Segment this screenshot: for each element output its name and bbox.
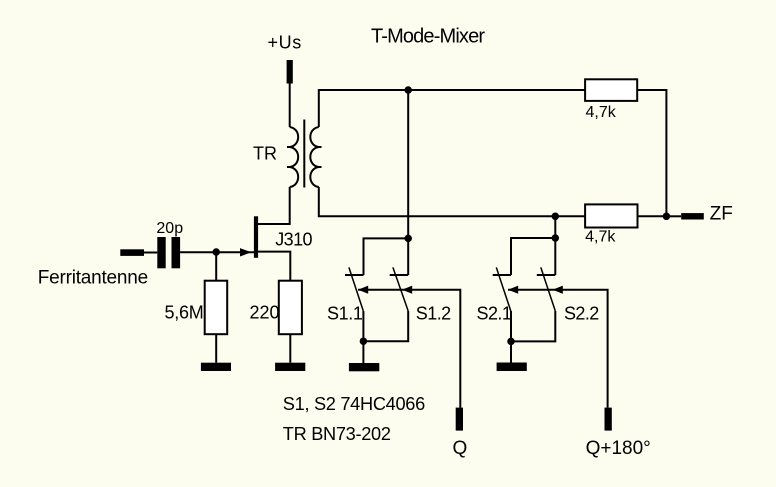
wire S2.1 bottom (510, 311, 512, 341)
wire S2 control line (508, 290, 608, 408)
wire S1.2 bottom (363, 311, 408, 341)
svg-text:S1.1: S1.1 (327, 303, 363, 323)
wire S1 ground stem (362, 341, 364, 363)
wire input to capacitor (144, 252, 157, 254)
arrow S1.2 control (402, 286, 412, 294)
svg-text:220: 220 (250, 303, 280, 323)
node S1 bottom junction (360, 337, 368, 345)
node input junction (212, 248, 220, 256)
svg-text:TR: TR (253, 144, 277, 164)
terminal +Us (287, 60, 293, 84)
resistor 5,6M (215, 252, 217, 281)
transistor Q1 J310 channel bar (254, 216, 258, 257)
svg-text:T-Mode-Mixer: T-Mode-Mixer (371, 26, 485, 48)
arrow S1.1 control (358, 286, 368, 294)
wire 5,6M to ground (215, 334, 217, 363)
ground 5,6M (201, 363, 231, 371)
switch S2.2 contact (537, 274, 556, 276)
svg-text:J310: J310 (275, 230, 312, 250)
node ZF bus S2 junction (552, 213, 560, 221)
arrow S2.2 control (553, 286, 563, 294)
wire S1.1 feed L (364, 238, 409, 275)
ground 220 (275, 363, 305, 371)
ground S2 (497, 363, 527, 372)
switch S1.1 contact (345, 274, 364, 276)
switch S1.2 lever (393, 267, 408, 311)
node ZF junction (663, 213, 671, 221)
wire S1.1 bottom (362, 311, 364, 341)
capacitor 20p (157, 237, 165, 268)
arrow S2.1 control (508, 286, 518, 294)
transformer TR primary winding (290, 127, 298, 187)
resistor R2 4,7k bottom (585, 204, 637, 227)
resistor 220 (279, 281, 302, 335)
wire capacitor to gate (180, 251, 254, 253)
wire R2 to ZF node (638, 215, 667, 217)
svg-text:4,7k: 4,7k (585, 229, 616, 246)
svg-text:Ferritantenne: Ferritantenne (38, 267, 148, 288)
switch S2.2 lever (541, 267, 556, 311)
node S2 bottom junction (507, 338, 515, 346)
wire +Us to TR primary (289, 84, 291, 128)
transistor Q1 J310 gate arrow (240, 248, 251, 256)
wire TR secondary bottom to ZF bus (319, 187, 585, 216)
node S2 feed junction (552, 234, 560, 242)
svg-text:Q+180°: Q+180° (586, 438, 651, 459)
terminal Ferritantenne input (120, 249, 144, 256)
svg-text:+Us: +Us (268, 33, 302, 53)
terminal ZF (681, 213, 704, 219)
wire S2.2 bottom (511, 311, 555, 341)
wire S1 feed vertical (407, 90, 409, 275)
wire S1 control line (358, 290, 460, 408)
svg-text:S1, S2 74HC4066: S1, S2 74HC4066 (283, 394, 425, 414)
svg-text:Q: Q (453, 438, 468, 459)
node top bus junction (404, 86, 412, 94)
svg-text:4,7k: 4,7k (586, 104, 617, 121)
wire S2 feed vertical (554, 216, 556, 275)
switch S2.1 contact (493, 274, 511, 276)
svg-text:ZF: ZF (710, 204, 733, 225)
wire S2 ground stem (510, 341, 512, 362)
terminal Q (456, 408, 463, 431)
wire TR secondary top to top bus (319, 90, 585, 127)
svg-text:20p: 20p (156, 220, 183, 237)
switch S1.2 contact (390, 274, 409, 276)
svg-text:S1.2: S1.2 (416, 303, 451, 323)
switch S2.1 lever (496, 267, 511, 311)
transformer TR secondary winding (310, 127, 318, 187)
terminal Q+180 (605, 408, 612, 431)
wire ZF node to terminal (666, 215, 681, 217)
wire TR primary bottom to drain (258, 187, 290, 224)
transformer TR core (303, 120, 305, 188)
wire 220 to ground (289, 334, 291, 363)
transistor Q1 source wire (258, 252, 290, 281)
svg-text:5,6M: 5,6M (165, 303, 204, 323)
wire S2.1 feed L (511, 238, 555, 275)
svg-text:S2.2: S2.2 (564, 303, 599, 323)
switch S1.1 lever (349, 267, 363, 311)
svg-text:S2.1: S2.1 (477, 303, 512, 323)
node S1 feed junction (404, 235, 412, 243)
svg-text:TR BN73-202: TR BN73-202 (283, 424, 391, 444)
transistor Q1 drain wire (258, 223, 290, 225)
resistor R1 4,7k top (585, 79, 637, 101)
ground S1 (349, 363, 379, 371)
wire R1 to right vertical (637, 90, 666, 216)
